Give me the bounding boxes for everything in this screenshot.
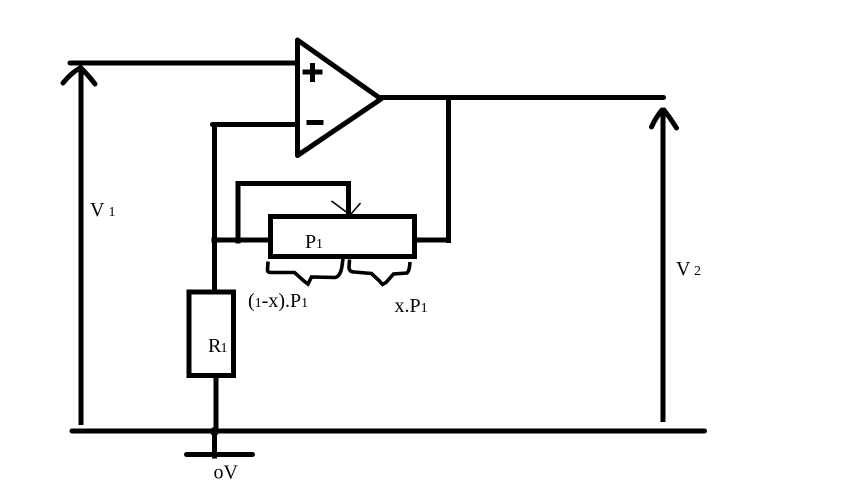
wire: feedback from output down to P1 right terminal (446, 98, 451, 244)
op-amp U1 (298, 40, 382, 156)
brace x section (349, 260, 410, 285)
svg-text:V: V (90, 199, 105, 221)
wire: 0V bottom rail (72, 429, 705, 434)
arrow V1 (63, 68, 95, 425)
svg-text:2: 2 (694, 264, 701, 279)
wire: node to P1 left terminal (212, 238, 271, 243)
ground bar (187, 452, 253, 457)
svg-text:P: P (305, 231, 316, 253)
junction: R1/ground node (210, 427, 219, 436)
brace (1-x) section (268, 259, 344, 285)
svg-text:(1-x).P1: (1-x).P1 (248, 290, 308, 312)
wire: inverting input horizontal (213, 122, 298, 127)
svg-text:1: 1 (109, 205, 116, 220)
wire: V1 top to op-amp non-inverting input (70, 61, 296, 66)
svg-text:oV: oV (214, 462, 239, 484)
svg-text:1: 1 (221, 341, 228, 356)
wiper arrow (332, 201, 361, 214)
svg-text:1: 1 (316, 237, 323, 252)
wire: op-amp output (381, 95, 664, 100)
wire: wiper loop to left terminal (238, 184, 349, 244)
wire: R1 bottom to 0V rail (214, 376, 219, 431)
resistor R1 (189, 292, 234, 376)
svg-text:V: V (676, 258, 691, 280)
wire: inverting node vertical down to R1 (212, 123, 217, 292)
potentiometer P1 (271, 217, 415, 257)
svg-text:x.P1: x.P1 (395, 295, 428, 317)
ground stem (212, 431, 217, 459)
wire: P1 right terminal (415, 238, 451, 243)
arrow V2 (652, 110, 677, 422)
